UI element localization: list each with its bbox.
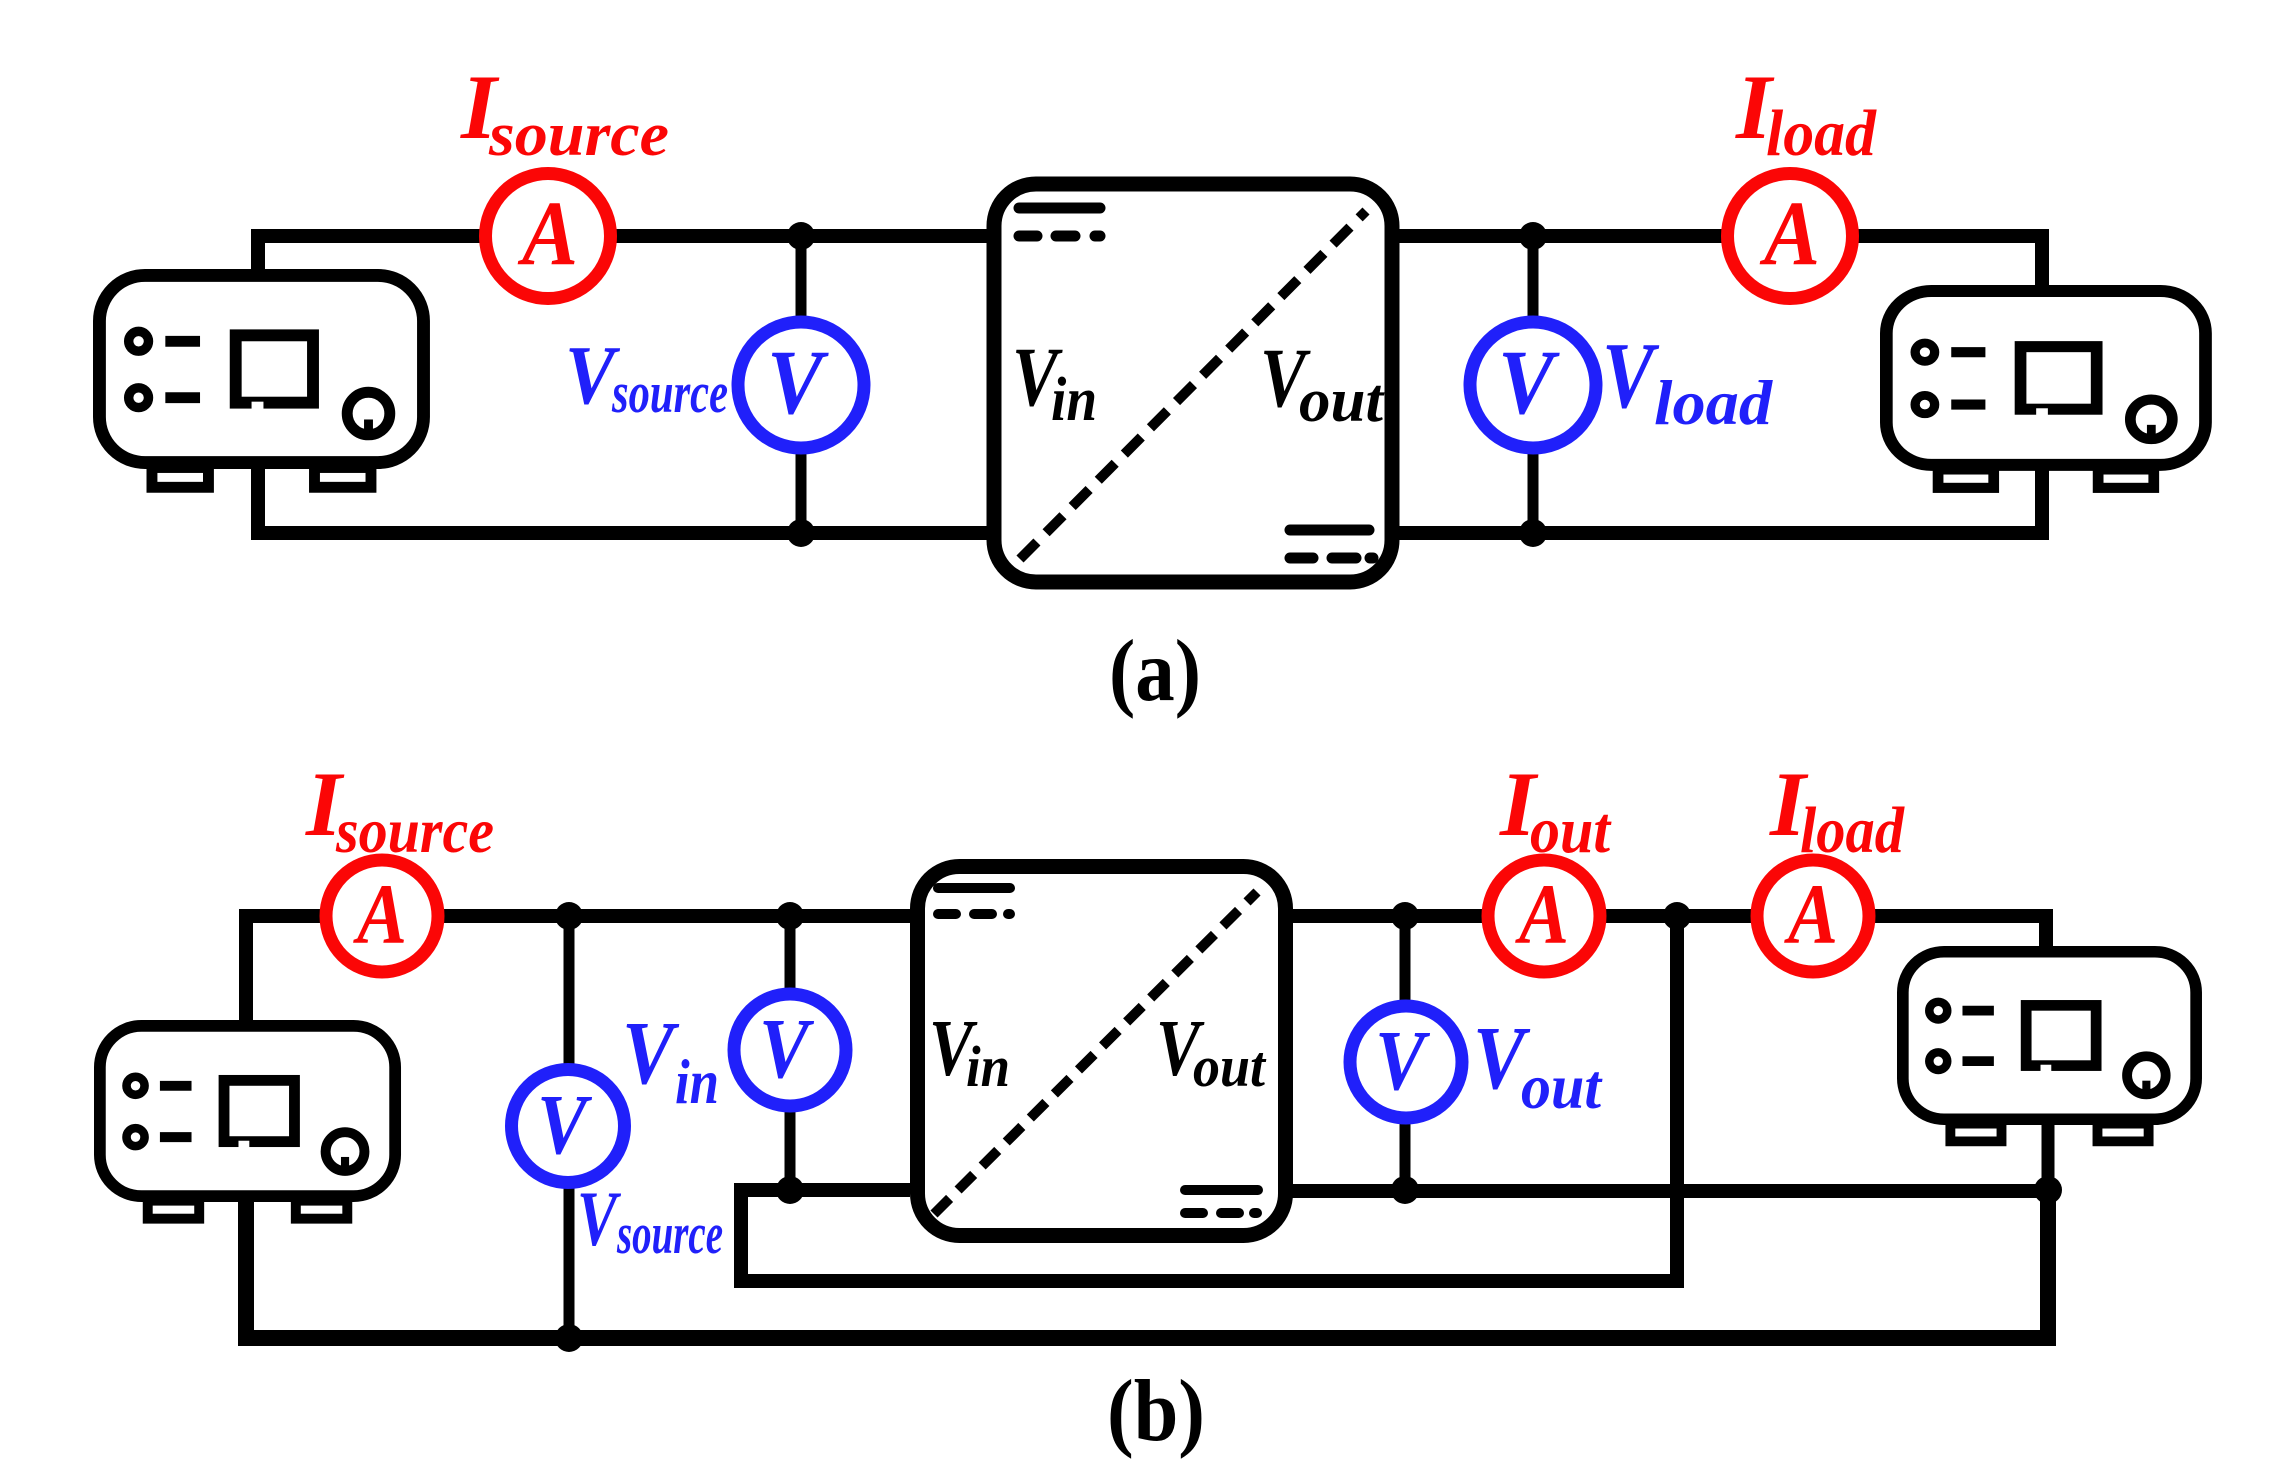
svg-text:source: source <box>611 360 728 425</box>
svg-text:V: V <box>1602 324 1660 428</box>
wire: remote sense return loop <box>741 916 1677 1281</box>
wire: source bottom lead <box>258 466 987 533</box>
svg-text:V: V <box>537 1076 593 1172</box>
svg-text:load: load <box>1800 794 1905 867</box>
node: junction input- <box>776 1176 804 1204</box>
DC-DC converter U1 box <box>994 184 1392 582</box>
svg-text:(a): (a) <box>1109 623 1201 720</box>
svg-text:out: out <box>1530 794 1612 867</box>
wire: converter output bottom <box>1399 468 2042 533</box>
ammeter Iload <box>1757 860 1869 972</box>
power supply icon <box>100 1026 395 1219</box>
svg-text:out: out <box>1193 1034 1267 1099</box>
svg-text:A: A <box>517 182 578 284</box>
voltmeter Vload <box>1470 322 1596 448</box>
node: output - junction <box>1519 519 1547 547</box>
svg-text:load: load <box>1766 97 1877 170</box>
svg-text:V: V <box>622 1004 680 1103</box>
wire: converter output bottom <box>1292 1184 2048 1198</box>
svg-text:V: V <box>1375 1012 1431 1108</box>
wire: source top lead <box>258 236 987 272</box>
DC symbol input <box>938 888 1010 914</box>
svg-text:source: source <box>616 1201 723 1266</box>
electronic load icon <box>1886 291 2205 488</box>
svg-text:in: in <box>966 1034 1010 1099</box>
electronic load icon <box>1903 952 2196 1142</box>
ammeter Isource <box>326 860 438 972</box>
svg-text:(b): (b) <box>1107 1363 1205 1460</box>
svg-text:in: in <box>1051 366 1097 434</box>
node: junction output- Vout <box>1391 1176 1419 1204</box>
converter diagonal <box>934 892 1257 1214</box>
voltmeter Vin <box>734 994 846 1106</box>
wire: load bottom lead <box>2042 1124 2055 1190</box>
node: junction input+ Vsource <box>555 902 583 930</box>
ammeter Isource <box>486 174 611 299</box>
svg-text:A: A <box>1784 866 1838 962</box>
power supply icon <box>99 275 423 487</box>
node: input - junction <box>787 519 815 547</box>
converter diagonal <box>1020 211 1366 559</box>
node: junction return Vsource <box>555 1324 583 1352</box>
DC symbol input <box>1019 208 1100 236</box>
voltmeter Vout <box>1350 1006 1462 1118</box>
svg-text:load: load <box>1654 367 1773 438</box>
voltmeter Vsource <box>512 1070 625 1183</box>
wire: Vin meter branch <box>785 916 796 1190</box>
DC symbol output <box>1185 1190 1258 1213</box>
svg-text:out: out <box>1521 1051 1603 1122</box>
wire: Vout meter branch <box>1400 916 1411 1190</box>
voltmeter Vsource <box>738 322 864 448</box>
wire: Vsource meter branch <box>564 916 575 1338</box>
svg-text:source: source <box>488 101 669 169</box>
ammeter Iout <box>1488 860 1600 972</box>
svg-text:A: A <box>1759 182 1820 284</box>
wire: converter input bottom <box>790 1183 910 1197</box>
node: junction output+ Vout <box>1391 902 1419 930</box>
wire: converter output top <box>1399 236 2042 288</box>
svg-text:out: out <box>1299 367 1385 435</box>
ammeter Iload <box>1728 174 1853 299</box>
wire: Vsource meter branch <box>796 236 807 533</box>
wire: source bottom lead / common return <box>246 1190 2048 1338</box>
svg-text:V: V <box>1498 331 1560 433</box>
node: output + junction <box>1519 222 1547 250</box>
node: junction load- <box>2034 1176 2062 1204</box>
svg-text:V: V <box>767 331 829 433</box>
svg-text:A: A <box>353 866 407 962</box>
node: input + junction <box>787 222 815 250</box>
svg-text:V: V <box>577 1175 622 1262</box>
svg-text:V: V <box>759 1000 815 1096</box>
DC-DC converter U2 box <box>918 867 1286 1236</box>
wire: converter output top <box>1292 916 2046 949</box>
wire: Vload meter branch <box>1528 236 1539 533</box>
svg-text:A: A <box>1515 866 1569 962</box>
DC symbol output <box>1290 530 1373 558</box>
svg-text:source: source <box>335 795 494 866</box>
node: junction output+ sense <box>1663 902 1691 930</box>
wire: source top lead <box>246 916 910 1023</box>
svg-text:in: in <box>675 1046 719 1117</box>
node: junction input+ Vin <box>776 902 804 930</box>
